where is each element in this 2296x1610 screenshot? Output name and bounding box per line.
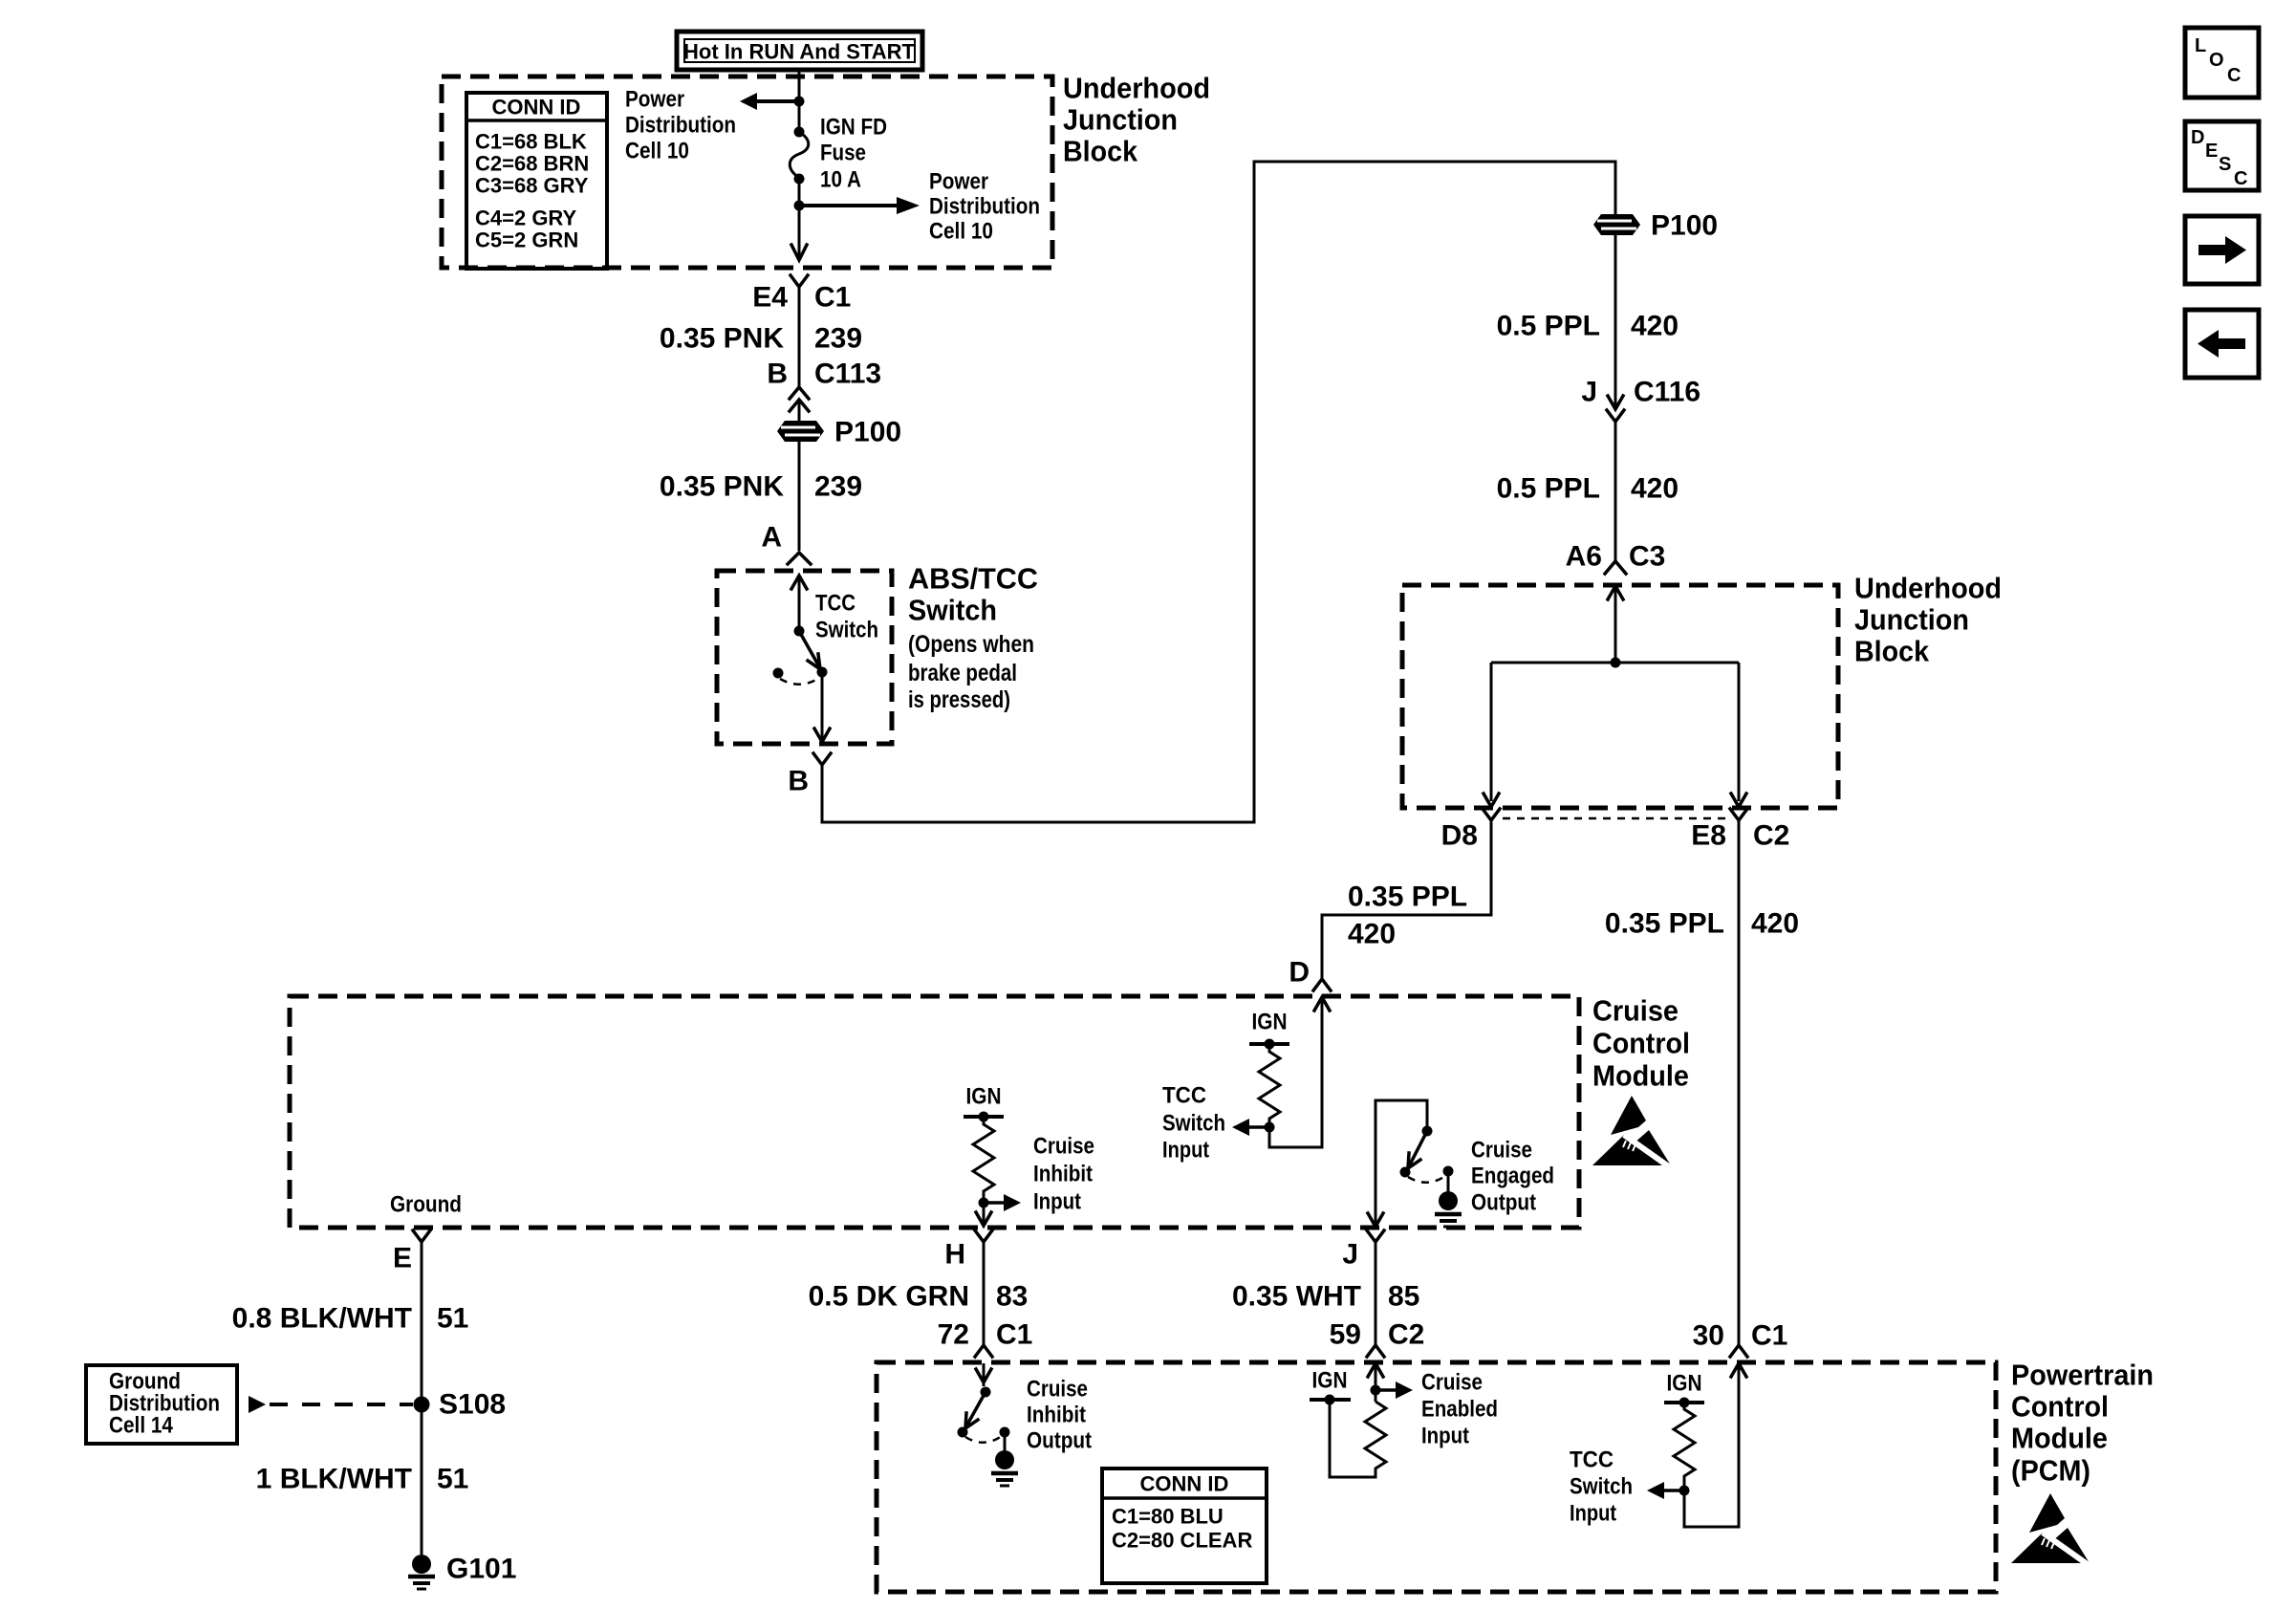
connector B / C113 — [767, 359, 881, 412]
svg-text:Control: Control — [1592, 1027, 1690, 1060]
cruise control module dashed box — [290, 996, 1579, 1228]
svg-text:C113: C113 — [814, 359, 881, 390]
svg-text:IGN: IGN — [1667, 1371, 1702, 1397]
wire E8 to 30, 0.35 PPL 420 — [1605, 820, 1799, 1345]
label Cruise Engaged Output — [1471, 1138, 1554, 1216]
svg-text:E4: E4 — [752, 282, 788, 314]
svg-text:0.35 PNK: 0.35 PNK — [660, 323, 784, 355]
svg-text:Inhibit: Inhibit — [1033, 1162, 1093, 1187]
svg-text:Input: Input — [1570, 1501, 1616, 1527]
wire branch left to Power Distribution — [740, 93, 805, 110]
wire 0.35 PNK 239 (upper) — [660, 287, 862, 386]
Cruise Inhibit Output switch (PCM) — [958, 1363, 1019, 1486]
svg-text:0.5 PPL: 0.5 PPL — [1497, 311, 1600, 342]
svg-text:C4=2 GRY: C4=2 GRY — [475, 207, 577, 230]
label Underhood Junction Block (top) — [1063, 72, 1210, 168]
svg-text:10 A: 10 A — [820, 167, 861, 193]
connector J — [1342, 1230, 1384, 1271]
wire from B up to P100 (right) — [822, 162, 1615, 822]
svg-text:E: E — [2205, 141, 2218, 162]
svg-text:Power: Power — [929, 169, 988, 195]
svg-text:L: L — [2195, 35, 2206, 56]
svg-text:0.5 PPL: 0.5 PPL — [1497, 473, 1600, 505]
svg-text:Cell 10: Cell 10 — [929, 219, 993, 245]
svg-text:85: 85 — [1388, 1281, 1419, 1313]
svg-text:TCC: TCC — [1162, 1083, 1206, 1109]
svg-text:IGN FD: IGN FD — [820, 115, 887, 141]
svg-text:brake pedal: brake pedal — [908, 660, 1017, 686]
wires inside junction block (right) — [1484, 586, 1746, 807]
svg-text:IGN: IGN — [1252, 1010, 1288, 1035]
connector D — [1289, 957, 1331, 991]
svg-text:Module: Module — [1592, 1059, 1689, 1093]
power feed box "Hot In RUN And START" — [677, 32, 922, 70]
svg-text:Input: Input — [1162, 1138, 1209, 1164]
svg-text:E8: E8 — [1691, 820, 1726, 852]
svg-text:Switch: Switch — [1570, 1474, 1633, 1500]
wire from Hot box down through junction block — [791, 70, 807, 260]
svg-text:0.8 BLK/WHT: 0.8 BLK/WHT — [232, 1303, 412, 1335]
svg-text:Cruise: Cruise — [1033, 1134, 1094, 1160]
svg-text:P100: P100 — [834, 417, 901, 448]
connector D8 — [1441, 809, 1500, 852]
svg-text:51: 51 — [437, 1464, 468, 1495]
svg-text:C: C — [2234, 168, 2247, 189]
svg-text:B: B — [767, 359, 788, 390]
svg-text:C5=2 GRN: C5=2 GRN — [475, 228, 578, 252]
ESD symbol (PCM) — [2011, 1493, 2090, 1565]
svg-text:Input: Input — [1033, 1189, 1081, 1215]
svg-text:72: 72 — [938, 1319, 969, 1351]
svg-text:420: 420 — [1631, 473, 1679, 505]
svg-text:TCC: TCC — [815, 591, 856, 617]
svg-text:Ground: Ground — [390, 1192, 462, 1218]
svg-text:C3: C3 — [1629, 541, 1665, 573]
svg-text:Distribution: Distribution — [625, 113, 736, 139]
svg-text:P100: P100 — [1651, 210, 1718, 242]
svg-text:C1: C1 — [814, 282, 851, 314]
underhood junction block dashed box (right) — [1402, 585, 1838, 808]
svg-text:Cruise: Cruise — [1421, 1370, 1483, 1396]
svg-text:C: C — [2227, 65, 2241, 86]
svg-text:83: 83 — [996, 1281, 1028, 1313]
label Ground (cruise module) — [390, 1192, 462, 1218]
Ground Distribution Cell 14 box — [86, 1365, 237, 1444]
wire branch right to Power Distribution — [794, 197, 921, 214]
ABS/TCC switch dashed box — [717, 571, 892, 744]
svg-text:59: 59 — [1330, 1319, 1361, 1351]
svg-text:O: O — [2209, 50, 2224, 71]
svg-text:E: E — [393, 1243, 412, 1274]
svg-text:Switch: Switch — [908, 594, 997, 627]
svg-text:D8: D8 — [1441, 820, 1478, 852]
ground G101 — [408, 1554, 516, 1590]
svg-text:30: 30 — [1693, 1320, 1724, 1352]
svg-text:239: 239 — [814, 323, 862, 355]
svg-text:Underhood: Underhood — [1854, 572, 2002, 605]
svg-text:C1: C1 — [1751, 1320, 1787, 1352]
label Cruise Control Module — [1592, 994, 1690, 1093]
svg-text:H: H — [944, 1239, 965, 1271]
svg-text:C1=80 BLU: C1=80 BLU — [1112, 1505, 1224, 1529]
DESC icon box — [2185, 121, 2259, 190]
svg-text:Engaged: Engaged — [1471, 1164, 1554, 1189]
connector E — [393, 1230, 430, 1274]
svg-text:Module: Module — [2011, 1422, 2108, 1455]
svg-text:Cruise: Cruise — [1027, 1377, 1088, 1403]
label Powertrain Control Module (PCM) — [2011, 1359, 2154, 1488]
svg-text:0.35 PPL: 0.35 PPL — [1605, 908, 1724, 940]
connector 59 / C2 — [1330, 1319, 1425, 1358]
ground wire 1 BLK/WHT 51 — [256, 1464, 469, 1495]
thin dashed connector line between D8 and E8 — [1503, 817, 1728, 820]
svg-text:is pressed): is pressed) — [908, 686, 1010, 713]
svg-text:Enabled: Enabled — [1421, 1397, 1498, 1423]
svg-text:420: 420 — [1631, 311, 1679, 342]
svg-text:Switch: Switch — [1162, 1111, 1225, 1137]
svg-text:A: A — [761, 522, 782, 554]
svg-text:Powertrain: Powertrain — [2011, 1359, 2154, 1392]
svg-text:Cruise: Cruise — [1471, 1138, 1532, 1164]
svg-text:D: D — [2191, 127, 2204, 148]
svg-text:239: 239 — [814, 471, 862, 503]
svg-text:Output: Output — [1027, 1428, 1092, 1454]
svg-text:Inhibit: Inhibit — [1027, 1403, 1086, 1428]
splice S108 — [414, 1389, 507, 1421]
svg-text:Block: Block — [1063, 135, 1138, 168]
label Power Distribution Cell 10 (left) — [625, 87, 736, 164]
label Cruise Inhibit Output — [1027, 1377, 1092, 1454]
connector E4 / C1 — [752, 275, 851, 314]
svg-text:0.35 PPL: 0.35 PPL — [1348, 881, 1467, 913]
Cruise Enabled Input resistor (PCM) — [1310, 1363, 1498, 1477]
wire 0.5 PPL 420 (lower) — [1497, 422, 1679, 561]
svg-text:420: 420 — [1348, 919, 1396, 950]
svg-text:(PCM): (PCM) — [2011, 1454, 2090, 1488]
svg-text:Cruise: Cruise — [1592, 994, 1679, 1028]
label ABS/TCC Switch — [908, 562, 1038, 714]
svg-text:S: S — [2219, 154, 2231, 175]
svg-text:(Opens when: (Opens when — [908, 631, 1034, 658]
fuse IGN FD 10 A — [790, 115, 887, 193]
svg-text:Block: Block — [1854, 635, 1930, 668]
svg-text:CONN ID: CONN ID — [492, 96, 581, 120]
svg-text:D: D — [1289, 957, 1310, 989]
wire H to 72, 0.5 DK GRN 83 — [809, 1242, 1029, 1345]
LOC icon box — [2185, 28, 2259, 98]
svg-text:C1=68 BLK: C1=68 BLK — [475, 130, 587, 154]
grommet P100 (left) — [777, 402, 901, 551]
connector E8 / C2 — [1691, 809, 1789, 852]
svg-text:TCC: TCC — [1570, 1447, 1614, 1473]
svg-text:51: 51 — [437, 1303, 468, 1335]
svg-text:ABS/TCC: ABS/TCC — [908, 562, 1038, 596]
svg-text:B: B — [788, 766, 809, 797]
wire 0.35 PNK 239 (lower) — [660, 471, 862, 503]
svg-text:0.35 WHT: 0.35 WHT — [1232, 1281, 1361, 1313]
svg-text:0.35 PNK: 0.35 PNK — [660, 471, 784, 503]
label Underhood Junction Block (right) — [1854, 572, 2002, 668]
svg-text:Output: Output — [1471, 1190, 1536, 1216]
TCC switch (inside ABS/TCC box) — [773, 576, 879, 742]
svg-text:S108: S108 — [439, 1389, 506, 1421]
ground wire 0.8 BLK/WHT 51 — [232, 1242, 469, 1555]
svg-text:C3=68 GRY: C3=68 GRY — [475, 174, 589, 198]
CONN ID table (junction block) — [466, 93, 607, 269]
wire D8 to D, 0.35 PPL 420 — [1322, 820, 1491, 979]
svg-text:C2=80 CLEAR: C2=80 CLEAR — [1112, 1529, 1252, 1553]
dashed leader to S108 — [249, 1396, 413, 1413]
svg-text:420: 420 — [1751, 908, 1799, 940]
label Power Distribution Cell 10 (right) — [929, 169, 1040, 245]
connector J / C116 — [1581, 377, 1700, 423]
svg-text:C2: C2 — [1388, 1319, 1424, 1351]
svg-text:1 BLK/WHT: 1 BLK/WHT — [256, 1464, 412, 1495]
svg-text:Switch: Switch — [815, 618, 878, 643]
connector A6 / C3 — [1566, 541, 1666, 575]
Cruise Engaged Output switch (cruise module) — [1368, 1100, 1462, 1228]
svg-text:A6: A6 — [1566, 541, 1602, 573]
svg-text:C2: C2 — [1753, 820, 1789, 852]
svg-text:0.5 DK GRN: 0.5 DK GRN — [809, 1281, 969, 1313]
next-page arrow icon — [2185, 216, 2259, 284]
wire 0.5 PPL 420 (upper) — [1497, 235, 1679, 409]
CONN ID table (PCM) — [1102, 1469, 1267, 1583]
connector 30 / C1 — [1693, 1320, 1788, 1358]
svg-text:Input: Input — [1421, 1424, 1469, 1449]
svg-text:Cell 14: Cell 14 — [109, 1413, 174, 1439]
grommet P100 (right) — [1593, 210, 1718, 242]
TCC Switch Input resistor (cruise module) — [1162, 997, 1330, 1164]
svg-text:Cell 10: Cell 10 — [625, 139, 689, 164]
svg-text:C116: C116 — [1634, 377, 1700, 408]
svg-text:J: J — [1581, 377, 1597, 408]
wire J to 59, 0.35 WHT 85 — [1232, 1242, 1419, 1345]
svg-text:Power: Power — [625, 87, 684, 113]
svg-text:IGN: IGN — [966, 1084, 1002, 1110]
connector 72 / C1 — [938, 1319, 1033, 1358]
svg-text:Underhood: Underhood — [1063, 72, 1210, 105]
svg-text:IGN: IGN — [1312, 1368, 1348, 1394]
ESD symbol (cruise control module) — [1592, 1096, 1671, 1167]
svg-text:G101: G101 — [446, 1554, 516, 1585]
Cruise Inhibit Input resistor (cruise module) — [964, 1084, 1094, 1227]
svg-text:C1: C1 — [996, 1319, 1032, 1351]
svg-text:Fuse: Fuse — [820, 141, 866, 166]
svg-text:Junction: Junction — [1063, 103, 1178, 137]
connector B (below ABS/TCC switch) — [788, 753, 831, 797]
svg-text:C2=68 BRN: C2=68 BRN — [475, 152, 589, 176]
previous-page arrow icon — [2185, 310, 2259, 378]
connector A of ABS/TCC switch — [761, 522, 811, 565]
svg-text:Hot In RUN And START: Hot In RUN And START — [683, 40, 916, 64]
svg-text:J: J — [1342, 1239, 1358, 1271]
powertrain control module dashed box — [877, 1362, 1996, 1592]
underhood junction block dashed box — [442, 76, 1052, 268]
TCC Switch Input resistor (PCM) — [1570, 1363, 1746, 1527]
svg-text:CONN ID: CONN ID — [1140, 1472, 1229, 1496]
svg-text:Distribution: Distribution — [929, 194, 1040, 220]
connector H — [944, 1230, 992, 1271]
svg-text:Junction: Junction — [1854, 603, 1969, 637]
svg-text:Control: Control — [2011, 1390, 2109, 1424]
